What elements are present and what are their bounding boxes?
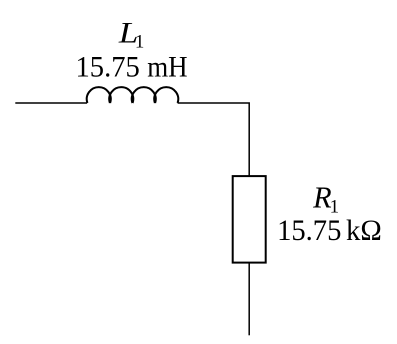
svg-text:kΩ: kΩ <box>346 214 382 247</box>
svg-text:mH: mH <box>147 50 187 83</box>
svg-text:15.75: 15.75 <box>277 214 341 247</box>
svg-text:15.75: 15.75 <box>76 50 140 83</box>
